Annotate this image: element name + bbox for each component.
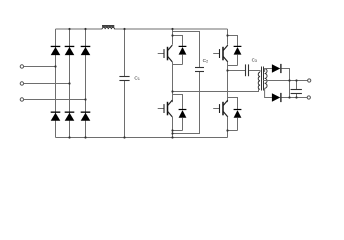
- wire secondary top lead: [265, 69, 272, 73]
- wire T2 diode tap: [173, 95, 183, 110]
- node top rail C1: [123, 28, 125, 30]
- wire right collector vertical: [227, 29, 229, 45]
- node C3 tap: [226, 69, 228, 71]
- wire T3 diode tap: [228, 36, 238, 47]
- node CT crossing: [288, 79, 290, 81]
- wire T4 diode tap: [228, 98, 238, 110]
- node left midpoint: [171, 90, 173, 92]
- wire T3 diode anode: [237, 55, 239, 66]
- node bottom rail leg2: [68, 136, 70, 138]
- inductor L winding: [102, 27, 114, 29]
- wire T1 diode tap: [173, 36, 183, 47]
- node output terminal bottom: [307, 96, 310, 99]
- wire T2 diode anode: [182, 118, 184, 131]
- wire C3 to primary top: [249, 71, 260, 73]
- node phase3 leg3: [84, 98, 86, 100]
- node cap stem bottom: [295, 96, 297, 98]
- wire rectifier leg 3: [85, 29, 87, 138]
- diode D6 rectifier bottom: [81, 112, 91, 121]
- diode T4 anti-parallel: [234, 109, 242, 118]
- wire right midpoint vertical: [227, 66, 229, 103]
- capacitor C2 plates: [195, 68, 204, 72]
- wire C1 lower stem: [124, 81, 126, 138]
- transistor T4 IGBT: [213, 100, 228, 117]
- node cap stem top: [295, 79, 297, 81]
- wire T4 emitter: [227, 117, 229, 138]
- wire top rail left of inductor: [56, 28, 103, 30]
- transistor T1 IGBT: [158, 45, 173, 62]
- wire rectifier leg 1: [55, 29, 57, 138]
- wire bottom output row: [281, 97, 307, 99]
- transformer TR primary winding: [258, 72, 260, 89]
- node T1 diode tap: [171, 34, 173, 36]
- node output terminal top: [308, 79, 311, 82]
- transistor T3 IGBT: [213, 45, 228, 62]
- wire left midpoint vertical: [172, 65, 174, 103]
- wire C1 upper stem: [124, 29, 126, 76]
- wire output cap upper stem: [296, 81, 298, 90]
- node T4 U join: [226, 129, 228, 131]
- wire phase 3: [24, 99, 86, 101]
- diode D8 output bottom: [272, 93, 282, 102]
- node input terminal 1: [20, 65, 23, 68]
- inductor L core bar: [102, 25, 114, 27]
- node T3 diode tap: [226, 34, 228, 36]
- node rectifier join: [288, 96, 290, 98]
- node input terminal 2: [20, 82, 23, 85]
- wire bridge output to primary bottom: [173, 89, 259, 91]
- svg-text:C3: C3: [252, 57, 257, 63]
- transistor T2 IGBT: [158, 100, 173, 117]
- node top rail left leg: [171, 28, 173, 30]
- node T2 U join: [171, 129, 173, 131]
- wire C2 bottom join: [173, 72, 200, 134]
- node phase1 leg1: [54, 65, 56, 67]
- diode D3 rectifier top: [81, 46, 91, 55]
- node input terminal 3: [20, 98, 23, 101]
- diode T1 anti-parallel: [179, 46, 187, 55]
- wire T3 U join: [228, 65, 238, 67]
- wire T1 U join: [173, 64, 183, 66]
- capacitor C4 output plates: [291, 90, 302, 94]
- node bottom rail left leg: [171, 136, 173, 138]
- diode T3 anti-parallel: [234, 46, 242, 55]
- wire C2 top tap: [173, 32, 200, 68]
- wire phase 2: [24, 83, 70, 85]
- wire right midpoint to C3: [228, 70, 246, 72]
- diode D4 rectifier bottom: [51, 112, 61, 121]
- node top rail leg3: [84, 28, 86, 30]
- node top rail leg2: [68, 28, 70, 30]
- wire T1 emitter: [172, 62, 174, 65]
- wire output cap lower stem: [296, 94, 298, 98]
- transformer TR core: [262, 67, 264, 91]
- diode D1 rectifier top: [51, 46, 61, 55]
- diode D7 output top: [272, 64, 282, 73]
- wire rectifier leg 2: [69, 29, 71, 138]
- node phase2 leg2: [68, 82, 70, 84]
- svg-text:C1: C1: [134, 76, 139, 82]
- node C2 rail join: [171, 132, 173, 134]
- capacitor C3 plates: [246, 64, 249, 76]
- wire T4 diode anode: [237, 118, 239, 131]
- capacitor C1 plates: [119, 77, 129, 81]
- wire left collector vertical: [172, 29, 174, 45]
- wire center tap lead: [263, 80, 307, 82]
- diode T2 anti-parallel: [179, 109, 187, 118]
- diode D5 rectifier bottom: [65, 112, 75, 121]
- node bottom rail C1: [123, 136, 125, 138]
- svg-text:C2: C2: [203, 58, 208, 64]
- wire D7 cathode to join: [281, 69, 289, 98]
- wire T3 emitter: [227, 62, 229, 66]
- diode D2 rectifier top: [65, 46, 75, 55]
- wire bottom rail: [56, 137, 228, 139]
- transformer TR secondary winding: [265, 69, 267, 89]
- wire secondary bottom lead: [265, 88, 272, 97]
- wire phase 1: [24, 66, 56, 68]
- wire T2 U join: [173, 130, 183, 132]
- node bottom rail leg3: [84, 136, 86, 138]
- wire T2 emitter: [172, 117, 174, 138]
- wire T4 U join: [228, 130, 238, 132]
- wire top rail right of inductor: [114, 28, 227, 30]
- wire T1 diode anode: [182, 55, 184, 65]
